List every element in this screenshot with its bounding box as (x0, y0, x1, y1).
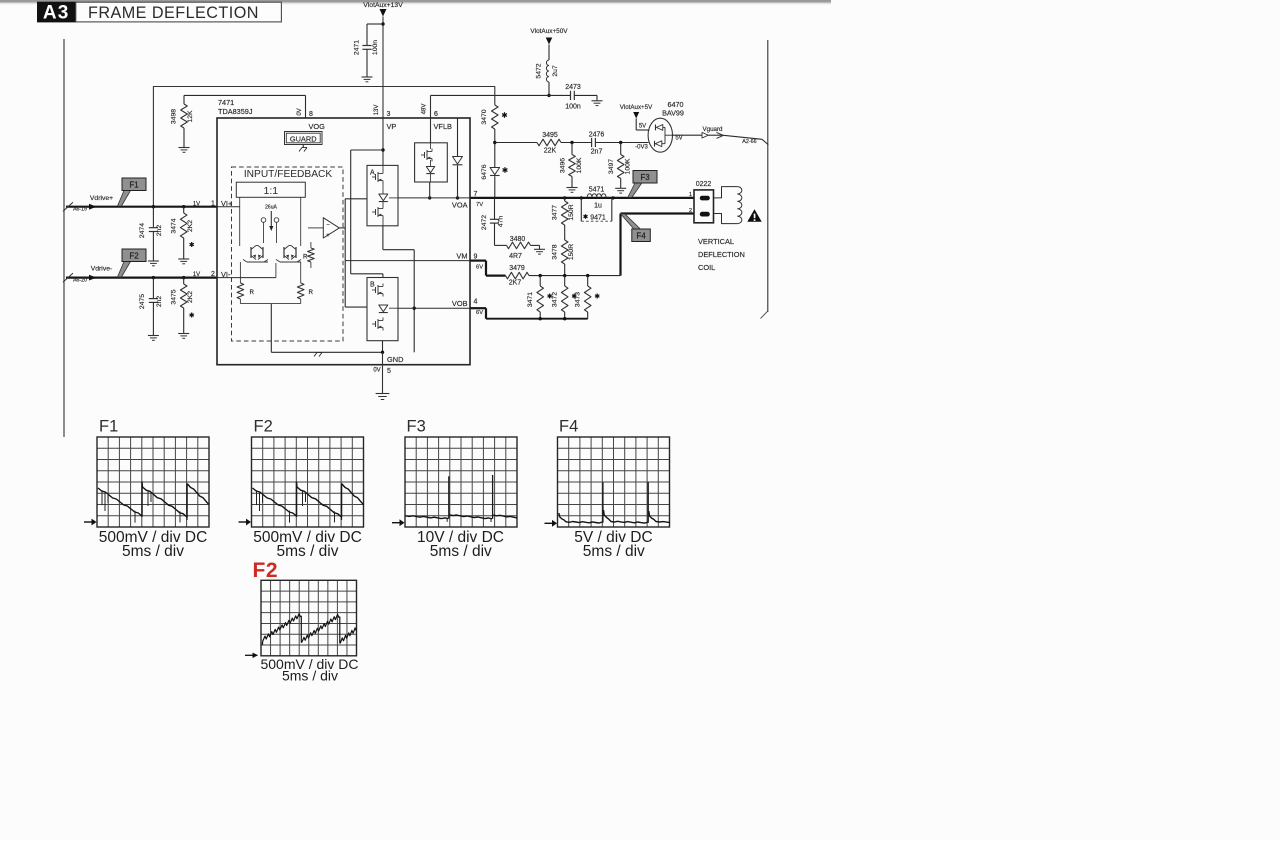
svg-text:3475: 3475 (171, 289, 178, 304)
svg-text:R: R (250, 289, 255, 296)
svg-text:COIL: COIL (698, 263, 715, 272)
svg-text:B: B (370, 282, 375, 289)
svg-text:Vdrive-: Vdrive- (91, 266, 113, 273)
svg-text:F1: F1 (129, 181, 139, 190)
svg-text:F2: F2 (129, 252, 139, 261)
svg-text:26uA: 26uA (265, 205, 277, 211)
svg-text:150R: 150R (568, 244, 575, 260)
svg-text:5ms / div: 5ms / div (583, 543, 645, 560)
svg-text:100K: 100K (576, 157, 583, 173)
svg-text:2: 2 (689, 208, 692, 214)
svg-text:2472: 2472 (481, 215, 488, 230)
svg-text:4: 4 (474, 298, 478, 305)
svg-text:A2-66: A2-66 (742, 139, 756, 145)
svg-text:F1: F1 (99, 418, 118, 436)
svg-text:F4: F4 (636, 232, 646, 241)
svg-text:3495: 3495 (542, 132, 558, 139)
svg-text:DEFLECTION: DEFLECTION (698, 250, 745, 259)
svg-text:5: 5 (387, 368, 391, 375)
svg-text:3472: 3472 (552, 292, 559, 307)
svg-text:13V: 13V (374, 105, 380, 116)
svg-text:2u7: 2u7 (552, 65, 559, 77)
svg-text:5ms / div: 5ms / div (430, 543, 492, 560)
svg-text:1V: 1V (193, 201, 200, 207)
svg-text:A: A (370, 170, 375, 177)
svg-text:3470: 3470 (481, 109, 488, 124)
svg-text:VFLB: VFLB (434, 122, 453, 131)
svg-text:5472: 5472 (536, 63, 543, 78)
svg-text:3478: 3478 (551, 244, 558, 259)
svg-text:7V: 7V (476, 202, 483, 208)
svg-text:6V: 6V (476, 264, 483, 270)
svg-text:-0V3: -0V3 (635, 145, 648, 151)
svg-text:A6-20: A6-20 (73, 277, 87, 283)
svg-text:1u: 1u (594, 203, 602, 210)
svg-text:5ms / div: 5ms / div (282, 668, 338, 684)
svg-text:3498: 3498 (170, 109, 177, 124)
svg-text:3479: 3479 (509, 265, 525, 272)
svg-text:1:1: 1:1 (263, 185, 278, 197)
svg-text:100n: 100n (372, 40, 379, 55)
svg-text:Vdrive+: Vdrive+ (90, 195, 113, 202)
svg-text:F3: F3 (407, 418, 426, 436)
svg-text:VOB: VOB (452, 299, 468, 308)
svg-text:47n: 47n (497, 216, 504, 228)
svg-text:7: 7 (474, 191, 478, 198)
svg-text:2n2: 2n2 (156, 296, 163, 308)
svg-text:+: + (326, 233, 330, 239)
svg-text:2471: 2471 (354, 40, 361, 55)
svg-text:BAV99: BAV99 (662, 109, 684, 118)
svg-text:F2: F2 (254, 418, 273, 436)
svg-text:VlotAux+50V: VlotAux+50V (530, 28, 568, 35)
svg-text:5V: 5V (639, 124, 646, 130)
svg-text:9471: 9471 (590, 215, 606, 222)
svg-text:5ms / div: 5ms / div (276, 543, 338, 560)
svg-text:3480: 3480 (510, 236, 526, 243)
svg-text:2K2: 2K2 (187, 291, 194, 303)
svg-text:2K2: 2K2 (187, 220, 194, 232)
svg-text:12K: 12K (187, 110, 194, 123)
svg-text:0222: 0222 (696, 181, 712, 188)
svg-text:3473: 3473 (575, 292, 582, 307)
svg-text:2475: 2475 (139, 294, 146, 309)
svg-text:3471: 3471 (527, 292, 534, 307)
svg-text:VOG: VOG (309, 122, 326, 131)
svg-text:3477: 3477 (551, 205, 558, 220)
svg-text:5ms / div: 5ms / div (122, 543, 184, 560)
svg-text:TDA8359J: TDA8359J (218, 107, 253, 116)
svg-text:3474: 3474 (171, 218, 178, 233)
svg-text:6: 6 (434, 111, 438, 118)
svg-text:A6-19: A6-19 (73, 207, 87, 213)
svg-text:VlotAux+13V: VlotAux+13V (363, 2, 403, 9)
svg-text:VOA: VOA (452, 201, 468, 210)
svg-text:R: R (303, 254, 308, 261)
svg-text:VERTICAL: VERTICAL (698, 237, 734, 246)
svg-text:VM: VM (456, 251, 467, 260)
svg-text:3496: 3496 (559, 158, 566, 173)
svg-text:−: − (326, 222, 330, 228)
svg-text:3497: 3497 (608, 159, 615, 174)
svg-text:INPUT/FEEDBACK: INPUT/FEEDBACK (244, 169, 333, 180)
svg-text:6V: 6V (476, 310, 483, 316)
svg-text:2K7: 2K7 (509, 279, 522, 286)
svg-text:2n2: 2n2 (156, 225, 163, 237)
svg-text:1: 1 (211, 200, 215, 207)
svg-text:GND: GND (387, 355, 403, 364)
svg-text:0V: 0V (373, 368, 380, 374)
svg-text:2474: 2474 (139, 223, 146, 238)
svg-text:2n7: 2n7 (591, 149, 603, 156)
svg-text:F4: F4 (559, 418, 578, 436)
svg-text:2476: 2476 (589, 132, 605, 139)
svg-text:48V: 48V (422, 104, 428, 115)
svg-text:3: 3 (387, 111, 391, 118)
svg-text:R: R (309, 289, 314, 296)
svg-text:Vguard: Vguard (703, 126, 724, 133)
svg-text:VP: VP (387, 122, 397, 131)
svg-text:22K: 22K (544, 148, 557, 155)
svg-text:7471: 7471 (218, 98, 234, 107)
svg-text:100K: 100K (624, 158, 631, 174)
svg-text:5471: 5471 (589, 186, 605, 193)
svg-text:F2: F2 (253, 559, 279, 582)
svg-text:1V: 1V (193, 272, 200, 278)
svg-text:6476: 6476 (481, 164, 488, 179)
svg-text:GUARD: GUARD (290, 134, 317, 143)
svg-text:2473: 2473 (565, 84, 581, 91)
svg-text:A3: A3 (43, 3, 70, 24)
svg-text:8: 8 (309, 111, 313, 118)
svg-text:5V: 5V (675, 136, 682, 142)
svg-text:1: 1 (689, 192, 692, 198)
svg-text:VlotAux+5V: VlotAux+5V (620, 104, 653, 111)
svg-text:0V: 0V (297, 108, 303, 115)
svg-text:100n: 100n (565, 104, 581, 111)
svg-text:2: 2 (211, 271, 215, 278)
svg-text:150R: 150R (568, 204, 575, 220)
svg-text:4R7: 4R7 (509, 253, 522, 260)
svg-text:FRAME DEFLECTION: FRAME DEFLECTION (88, 4, 259, 22)
svg-text:9: 9 (474, 253, 478, 260)
svg-text:F3: F3 (640, 173, 650, 182)
